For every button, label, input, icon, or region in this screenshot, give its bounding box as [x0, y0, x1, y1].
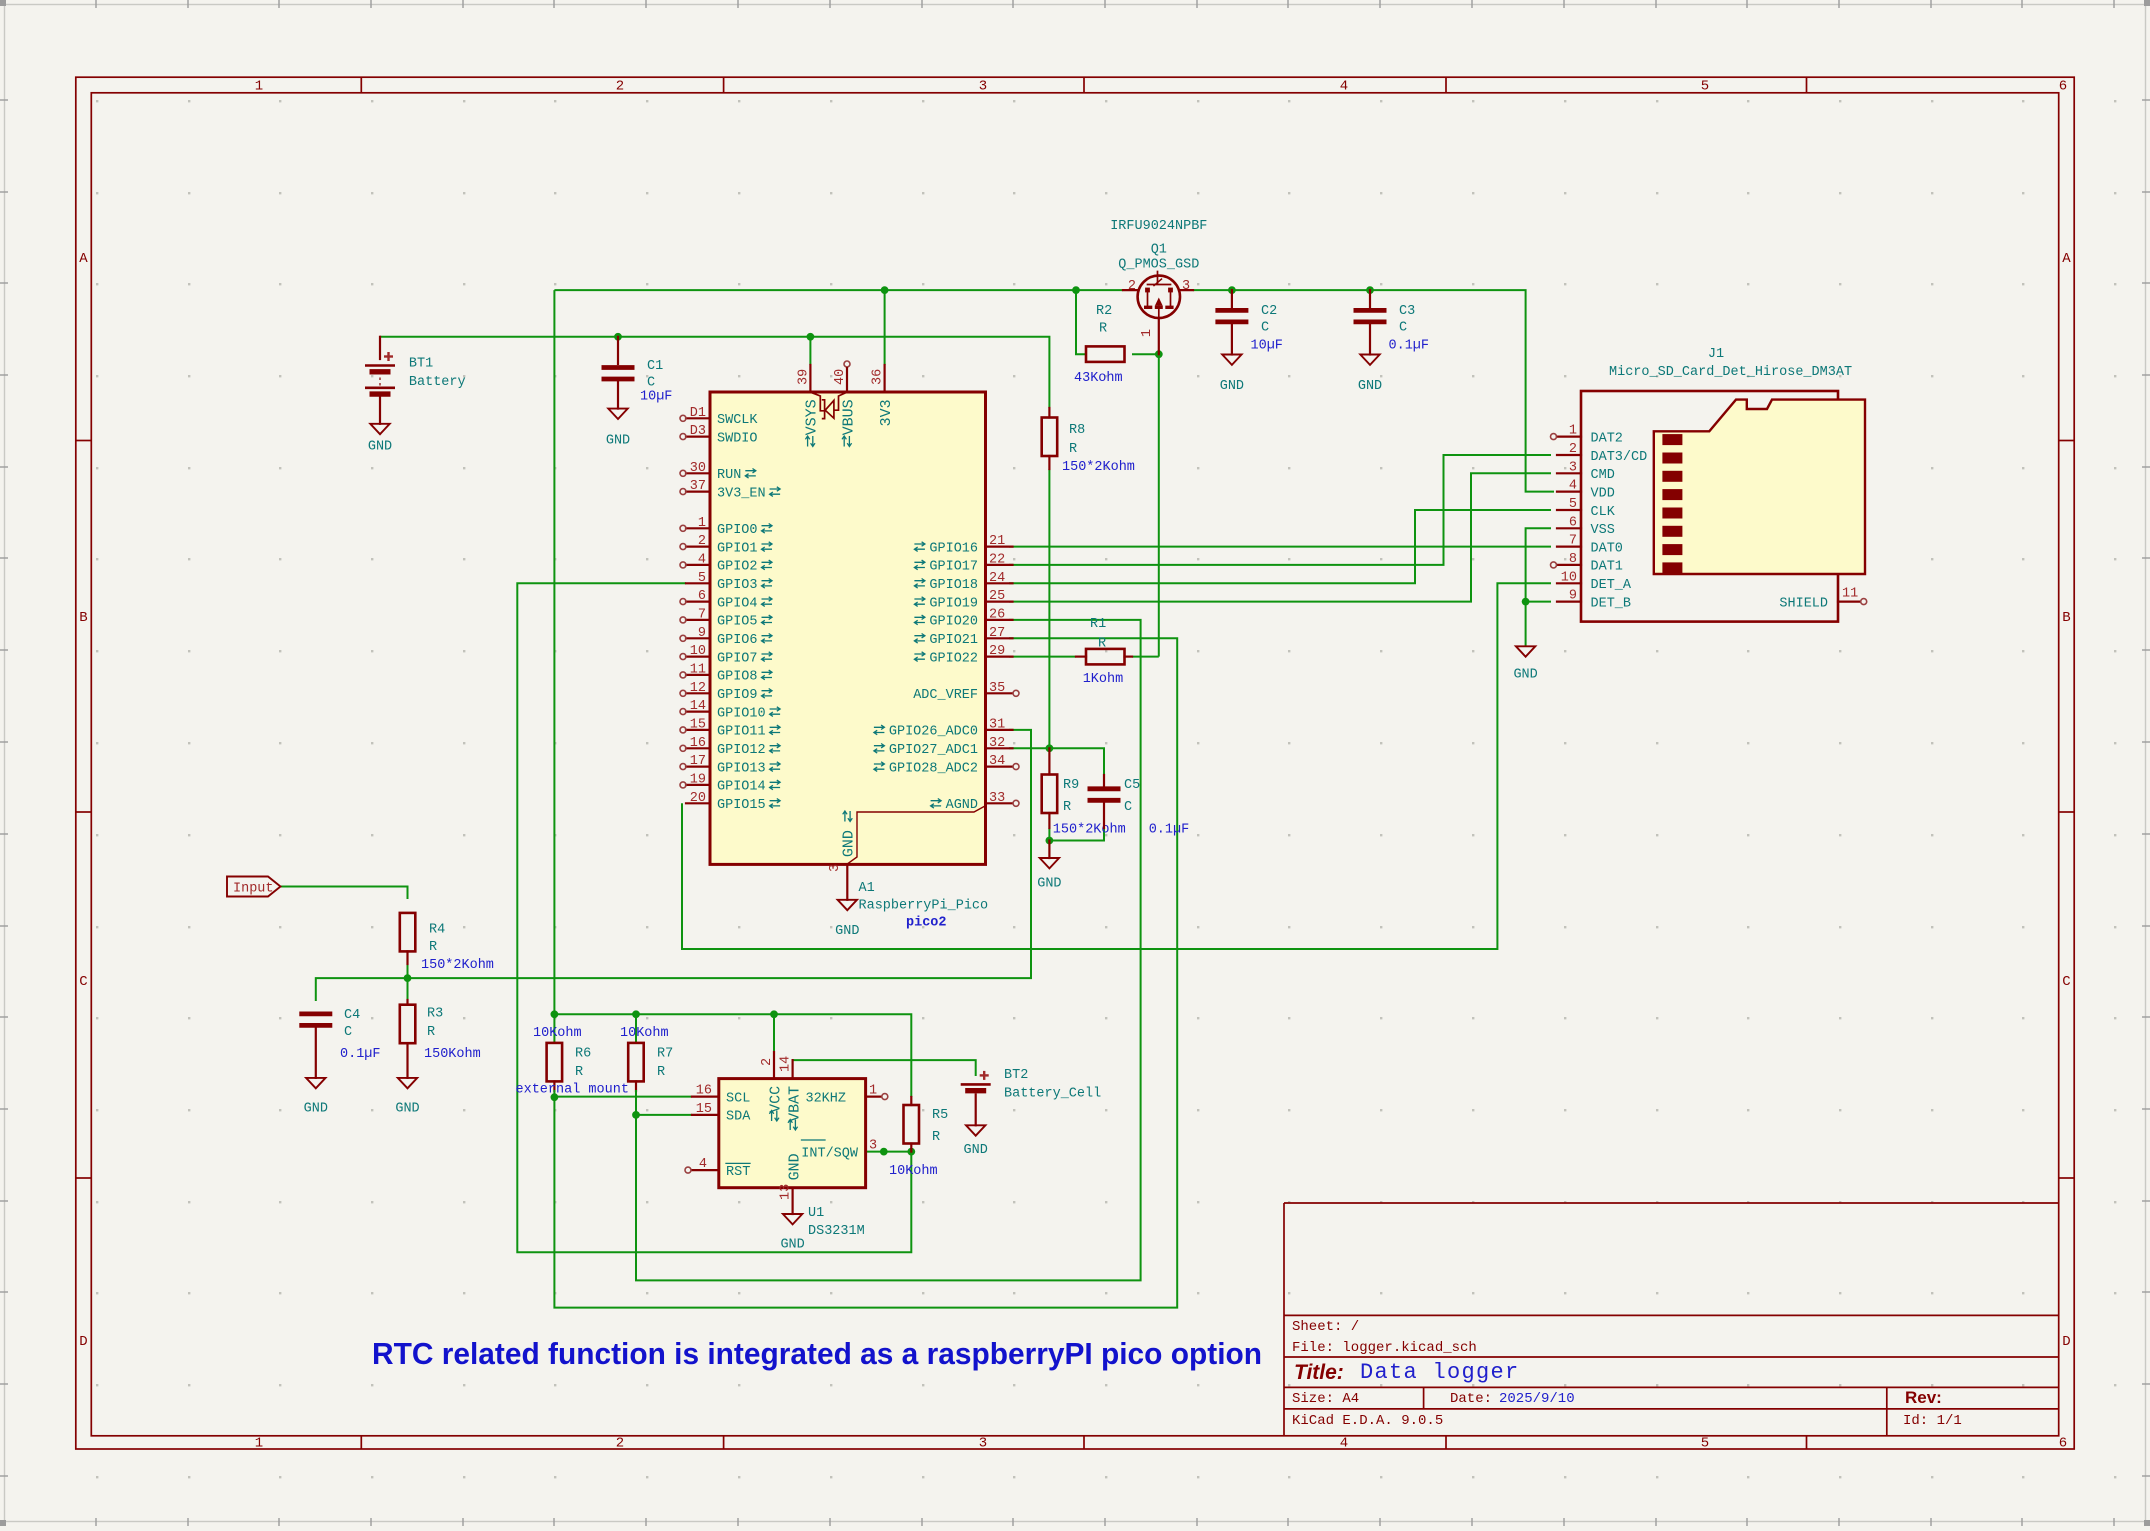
J1 micro sd card shape: [1654, 400, 1865, 574]
svg-text:A: A: [2062, 251, 2071, 267]
svg-text:GND: GND: [835, 924, 859, 939]
chip U1 DS3231M body: [719, 1079, 866, 1188]
svg-text:pico2: pico2: [906, 916, 947, 931]
svg-text:10: 10: [690, 644, 706, 659]
wire SCL pin to R6 junction: [554, 1096, 692, 1098]
svg-text:C: C: [1261, 321, 1269, 336]
svg-text:32KHZ: 32KHZ: [805, 1091, 846, 1106]
wire GPIO22 to R1: [1009, 656, 1076, 658]
ground DET_B: [1516, 646, 1535, 656]
chip A1 RaspberryPi_Pico body: [710, 392, 986, 864]
ground U1: [783, 1214, 802, 1224]
svg-text:11: 11: [690, 662, 706, 677]
svg-text:14: 14: [779, 1056, 794, 1072]
svg-text:A1: A1: [859, 881, 875, 896]
svg-text:19: 19: [690, 772, 706, 787]
svg-text:Battery_Cell: Battery_Cell: [1004, 1087, 1101, 1102]
svg-text:Q_PMOS_GSD: Q_PMOS_GSD: [1118, 258, 1199, 273]
svg-text:Sheet: /: Sheet: /: [1292, 1319, 1359, 1335]
pin 7 GPIO5: [686, 619, 710, 621]
svg-text:Size: A4: Size: A4: [1292, 1391, 1359, 1407]
pin 5 CLK: [1557, 509, 1581, 511]
svg-text:36: 36: [871, 369, 886, 385]
svg-text:DAT0: DAT0: [1591, 541, 1623, 556]
svg-text:DAT1: DAT1: [1591, 560, 1623, 575]
junction 3V3 rail / pin36: [881, 286, 889, 294]
wire R9/C5 bottom join: [1049, 828, 1104, 841]
capacitor C5: [1103, 775, 1105, 786]
svg-text:AGND: AGND: [946, 798, 978, 813]
pin 14 VBAT: [791, 1060, 793, 1079]
svg-text:B: B: [2062, 610, 2070, 626]
svg-text:21: 21: [989, 534, 1005, 549]
svg-text:20: 20: [690, 791, 706, 806]
connector J1 outer box: [1581, 391, 1838, 622]
svg-text:8: 8: [1569, 552, 1577, 567]
svg-text:C: C: [1124, 800, 1132, 815]
ground C1: [608, 409, 627, 419]
pin 6 GPIO4: [686, 600, 710, 602]
svg-text:GPIO21: GPIO21: [929, 633, 978, 648]
svg-text:2: 2: [1128, 279, 1136, 294]
pin 37 3V3_EN: [686, 491, 710, 493]
pin 3 CMD: [1557, 472, 1581, 474]
svg-text:R7: R7: [657, 1047, 673, 1062]
junction VCC rail / pin2: [770, 1010, 778, 1018]
svg-text:D: D: [79, 1334, 87, 1350]
capacitor C3: [1369, 290, 1371, 307]
pin 4 GPIO2: [686, 564, 710, 566]
svg-text:5: 5: [1701, 1436, 1709, 1452]
svg-text:9: 9: [698, 626, 706, 641]
junction gate / R2 / R1: [1155, 350, 1163, 358]
svg-text:SDA: SDA: [726, 1110, 751, 1125]
svg-text:15: 15: [690, 717, 706, 732]
svg-text:Title:: Title:: [1294, 1361, 1344, 1384]
ground C2: [1222, 355, 1241, 365]
wire VSS to DET_B junction: [1526, 528, 1551, 601]
svg-text:150*2Kohm: 150*2Kohm: [421, 958, 494, 973]
svg-text:1Kohm: 1Kohm: [1083, 672, 1124, 687]
svg-text:GPIO15: GPIO15: [717, 798, 766, 813]
svg-text:ADC_VREF: ADC_VREF: [913, 688, 978, 703]
svg-text:2: 2: [698, 534, 706, 549]
svg-text:3V3: 3V3: [878, 399, 895, 426]
svg-text:GND: GND: [1358, 379, 1382, 394]
svg-text:GPIO2: GPIO2: [717, 560, 758, 575]
junction R9 / C5 / GND: [1046, 837, 1054, 845]
svg-text:A: A: [79, 251, 88, 267]
pin 6 VSS: [1557, 527, 1581, 529]
wire RTC VCC rail: [554, 1014, 911, 1097]
svg-text:R9: R9: [1063, 778, 1079, 793]
svg-text:5: 5: [1569, 497, 1577, 512]
svg-text:RST: RST: [726, 1165, 750, 1180]
pin 15 GPIO11: [686, 729, 710, 731]
svg-text:R6: R6: [575, 1047, 591, 1062]
svg-text:IRFU9024NPBF: IRFU9024NPBF: [1110, 219, 1207, 234]
svg-text:R: R: [575, 1065, 583, 1080]
svg-text:16: 16: [690, 736, 706, 751]
ground C4: [306, 1078, 325, 1088]
junction 3V3 rail / C3: [1366, 286, 1374, 294]
svg-text:VSYS: VSYS: [804, 399, 821, 435]
pin 10 GPIO7: [686, 655, 710, 657]
svg-text:Micro_SD_Card_Det_Hirose_DM3AT: Micro_SD_Card_Det_Hirose_DM3AT: [1609, 365, 1852, 380]
svg-text:Data logger: Data logger: [1360, 1360, 1520, 1385]
pin 31 GPIO26_ADC0: [986, 729, 1013, 731]
pin 27 GPIO21: [986, 637, 1013, 639]
ground R3: [398, 1078, 417, 1088]
svg-text:GPIO11: GPIO11: [717, 725, 766, 740]
svg-text:35: 35: [989, 681, 1005, 696]
svg-text:VDD: VDD: [1591, 486, 1615, 501]
svg-text:external mount: external mount: [516, 1083, 629, 1098]
svg-text:GPIO3: GPIO3: [717, 578, 758, 593]
svg-text:12: 12: [690, 681, 706, 696]
svg-text:3: 3: [869, 1139, 877, 1154]
pico internal VSYS/VBUS diode: [811, 393, 846, 419]
svg-text:Id: 1/1: Id: 1/1: [1903, 1413, 1962, 1429]
svg-text:1: 1: [1569, 424, 1577, 439]
svg-text:30: 30: [690, 461, 706, 476]
capacitor C2: [1231, 290, 1233, 307]
svg-text:C: C: [1399, 321, 1407, 336]
junction VSYS rail / pin39: [807, 333, 815, 341]
svg-text:29: 29: [989, 644, 1005, 659]
wire GPIO3 to INT/SQW return: [517, 583, 911, 1252]
svg-text:SWDIO: SWDIO: [717, 431, 758, 446]
pin 30 RUN: [686, 472, 710, 474]
svg-text:GPIO18: GPIO18: [929, 578, 978, 593]
pin 14 GPIO10: [686, 710, 710, 712]
junction SDA / R7: [632, 1111, 640, 1119]
svg-text:D3: D3: [690, 424, 706, 439]
svg-text:R: R: [932, 1130, 940, 1145]
svg-text:R: R: [1099, 321, 1107, 336]
wire VSYS rail from BT1 to R8: [380, 337, 1049, 408]
svg-text:C: C: [79, 974, 87, 990]
wire gate vertical to R1: [1158, 354, 1160, 656]
junction DET_B / VSS / GND: [1522, 598, 1530, 606]
svg-text:2025/9/10: 2025/9/10: [1499, 1391, 1575, 1407]
svg-text:GPIO1: GPIO1: [717, 541, 758, 556]
svg-text:INT/SQW: INT/SQW: [801, 1146, 859, 1161]
svg-text:33: 33: [989, 791, 1005, 806]
svg-text:7: 7: [1569, 534, 1577, 549]
svg-text:VCC: VCC: [768, 1086, 785, 1113]
svg-text:CMD: CMD: [1591, 468, 1615, 483]
svg-text:BT2: BT2: [1004, 1068, 1028, 1083]
pin 39 VSYS: [809, 365, 811, 392]
svg-text:DS3231M: DS3231M: [808, 1224, 865, 1239]
junction VSYS rail / C1: [614, 333, 622, 341]
svg-text:0.1µF: 0.1µF: [340, 1047, 381, 1062]
svg-text:150Kohm: 150Kohm: [424, 1047, 481, 1062]
pin 1 DAT2: [1557, 436, 1581, 438]
svg-text:9: 9: [1569, 589, 1577, 604]
junction SCL / R6: [551, 1093, 559, 1101]
svg-text:RTC related function is integr: RTC related function is integrated as a …: [372, 1336, 1262, 1371]
svg-text:U1: U1: [808, 1206, 824, 1221]
ground pico: [838, 900, 857, 910]
wire R2 to gate junction: [1132, 353, 1159, 355]
svg-text:KiCad E.D.A. 9.0.5: KiCad E.D.A. 9.0.5: [1292, 1413, 1443, 1429]
pin D1 SWCLK: [686, 417, 710, 419]
wire GPIO16 to DAT0: [1009, 546, 1551, 548]
svg-text:GND: GND: [1220, 379, 1244, 394]
svg-text:GND: GND: [304, 1102, 328, 1117]
svg-text:R: R: [657, 1065, 665, 1080]
junction INT/SQW / R5: [907, 1148, 915, 1156]
svg-text:24: 24: [989, 571, 1005, 586]
svg-text:10Kohm: 10Kohm: [533, 1026, 582, 1041]
pin 9 DET_B: [1557, 600, 1581, 602]
svg-text:43Kohm: 43Kohm: [1074, 371, 1123, 386]
svg-text:DET_A: DET_A: [1591, 578, 1632, 593]
wire 3V3 top rail: [554, 289, 1123, 291]
svg-text:D1: D1: [690, 406, 706, 421]
pin 32 GPIO27_ADC1: [986, 747, 1013, 749]
svg-text:GND: GND: [786, 1153, 803, 1180]
svg-text:GPIO13: GPIO13: [717, 761, 766, 776]
svg-text:25: 25: [989, 589, 1005, 604]
svg-text:1: 1: [698, 516, 706, 531]
svg-text:R1: R1: [1090, 617, 1106, 632]
resistor R3: [406, 1000, 408, 1005]
pin 16 GPIO12: [686, 747, 710, 749]
svg-text:C: C: [2062, 974, 2070, 990]
pin 1 GPIO0: [686, 527, 710, 529]
svg-text:4: 4: [699, 1157, 707, 1172]
junction INT/SQW a: [880, 1148, 888, 1156]
svg-text:GND: GND: [1513, 668, 1537, 683]
svg-text:34: 34: [989, 754, 1005, 769]
wire DET_B junction to GND: [1525, 602, 1527, 647]
resistor R4: [400, 913, 416, 952]
pin 20 GPIO15: [686, 802, 710, 804]
pin 8 DAT1: [1557, 564, 1581, 566]
pin 12 GPIO9: [686, 692, 710, 694]
battery BT1: [379, 337, 381, 359]
svg-text:5: 5: [698, 571, 706, 586]
ground BT2: [966, 1125, 985, 1135]
resistor R5: [910, 1097, 912, 1105]
svg-text:6: 6: [2059, 79, 2067, 95]
svg-text:3: 3: [828, 864, 843, 872]
wire 3V3 to RTC VCC rail (left vertical): [553, 290, 555, 1014]
svg-text:VBAT: VBAT: [786, 1086, 803, 1122]
svg-text:DAT2: DAT2: [1591, 431, 1623, 446]
svg-text:R: R: [1063, 800, 1071, 815]
svg-text:R8: R8: [1069, 423, 1085, 438]
pico internal GND pin outline: [847, 806, 985, 864]
svg-text:14: 14: [690, 699, 706, 714]
svg-text:Q1: Q1: [1151, 243, 1167, 258]
svg-text:150*2Kohm: 150*2Kohm: [1062, 460, 1135, 475]
svg-text:10Kohm: 10Kohm: [889, 1164, 938, 1179]
svg-text:37: 37: [690, 479, 706, 494]
svg-text:GPIO4: GPIO4: [717, 596, 758, 611]
svg-text:VBUS: VBUS: [840, 399, 857, 435]
svg-text:GPIO16: GPIO16: [929, 541, 978, 556]
svg-text:GPIO10: GPIO10: [717, 706, 766, 721]
svg-text:22: 22: [989, 552, 1005, 567]
svg-text:D: D: [2062, 1334, 2070, 1350]
svg-text:GPIO20: GPIO20: [929, 615, 978, 630]
junction 3V3 rail / C2: [1228, 286, 1236, 294]
svg-text:15: 15: [696, 1102, 712, 1117]
svg-text:GPIO22: GPIO22: [929, 651, 978, 666]
wire VBAT to BT2: [793, 1060, 976, 1076]
pin 9 GPIO6: [686, 637, 710, 639]
svg-text:Rev:: Rev:: [1905, 1388, 1942, 1407]
svg-text:2: 2: [616, 79, 624, 95]
wire R2 gate branch: [1076, 290, 1086, 354]
wire INT/SQW to R5: [866, 1151, 912, 1153]
junction R4 / R3 / ADC line: [404, 974, 412, 982]
wire R4 bottom to node: [407, 964, 409, 1000]
wire GPIO18 to CLK: [1009, 510, 1551, 583]
svg-text:GND: GND: [395, 1102, 419, 1117]
svg-text:GPIO9: GPIO9: [717, 688, 758, 703]
svg-text:GND: GND: [841, 830, 858, 857]
wire GPIO27_ADC1 to R9/C5: [1009, 748, 1104, 775]
svg-text:Input: Input: [233, 881, 274, 896]
svg-text:10µF: 10µF: [1251, 339, 1283, 354]
svg-text:C3: C3: [1399, 304, 1415, 319]
wire GPIO17 to DAT3/CD: [1009, 455, 1551, 565]
svg-text:GPIO17: GPIO17: [929, 560, 978, 575]
wire VCC pin 2 drop: [773, 1014, 775, 1052]
pin 35 ADC_VREF: [986, 692, 1013, 694]
svg-text:B: B: [79, 610, 87, 626]
svg-text:150*2Kohm: 150*2Kohm: [1053, 823, 1126, 838]
svg-text:1: 1: [869, 1084, 877, 1099]
svg-text:4: 4: [698, 552, 706, 567]
svg-text:Date:: Date:: [1450, 1391, 1492, 1407]
ground R9/C5: [1048, 841, 1050, 859]
svg-text:27: 27: [989, 626, 1005, 641]
pin 11 GPIO8: [686, 674, 710, 676]
wire GPIO20 to SDA return: [636, 620, 1141, 1281]
pin 3 GND bottom: [846, 864, 848, 899]
svg-text:4: 4: [1340, 1436, 1348, 1452]
wire R1 right lead to gate vertical: [1132, 656, 1159, 658]
resistor R1: [1076, 655, 1086, 657]
svg-text:GPIO7: GPIO7: [717, 651, 758, 666]
ground C3: [1360, 355, 1379, 365]
svg-text:11: 11: [1842, 587, 1858, 602]
svg-text:1: 1: [1140, 329, 1155, 337]
svg-text:GPIO26_ADC0: GPIO26_ADC0: [889, 725, 978, 740]
svg-text:GPIO8: GPIO8: [717, 670, 758, 685]
svg-text:6: 6: [698, 589, 706, 604]
pin 34 GPIO28_ADC2: [986, 765, 1013, 767]
svg-text:40: 40: [833, 369, 848, 385]
svg-text:2: 2: [616, 1436, 624, 1452]
svg-text:R4: R4: [429, 923, 445, 938]
svg-text:GPIO0: GPIO0: [717, 523, 758, 538]
pin 2 GPIO1: [686, 545, 710, 547]
pin 25 GPIO19: [986, 600, 1013, 602]
svg-text:0.1µF: 0.1µF: [1389, 339, 1430, 354]
capacitor C4: [299, 1012, 332, 1017]
svg-text:RUN: RUN: [717, 468, 741, 483]
svg-text:GPIO14: GPIO14: [717, 780, 766, 795]
svg-text:6: 6: [2059, 1436, 2067, 1452]
svg-text:R: R: [1098, 637, 1106, 652]
wire GPIO19 to CMD: [1009, 473, 1551, 601]
svg-text:R: R: [427, 1025, 435, 1040]
svg-text:CLK: CLK: [1591, 505, 1616, 520]
junction GPIO27 / R8 / R9: [1046, 744, 1054, 752]
svg-text:6: 6: [1569, 515, 1577, 530]
capacitor C1: [617, 337, 619, 364]
pin 26 GPIO20: [986, 619, 1013, 621]
pin 40 VBUS: [844, 361, 850, 367]
svg-text:10µF: 10µF: [640, 390, 672, 405]
pin 24 GPIO18: [986, 582, 1013, 584]
svg-text:3: 3: [1569, 460, 1577, 475]
wire Input to R4: [281, 887, 408, 900]
pin 10 DET_A: [1557, 582, 1581, 584]
wire VSYS pin drop: [809, 337, 811, 365]
svg-text:SWCLK: SWCLK: [717, 413, 758, 428]
svg-text:GPIO28_ADC2: GPIO28_ADC2: [889, 761, 978, 776]
svg-text:Battery: Battery: [409, 375, 466, 390]
svg-text:C2: C2: [1261, 304, 1277, 319]
wire GPIO21 to SCL return: [554, 638, 1177, 1307]
svg-text:13: 13: [779, 1184, 794, 1200]
pin 33 AGND: [986, 802, 1013, 804]
svg-text:VSS: VSS: [1591, 523, 1615, 538]
svg-text:BT1: BT1: [409, 357, 433, 372]
junction 3V3 rail / R2: [1072, 286, 1080, 294]
svg-text:GND: GND: [780, 1238, 804, 1253]
svg-text:GPIO6: GPIO6: [717, 633, 758, 648]
svg-text:C: C: [344, 1025, 352, 1040]
svg-text:31: 31: [989, 717, 1005, 732]
pin 22 GPIO17: [986, 564, 1013, 566]
pin 11 SHIELD: [1838, 600, 1860, 602]
svg-text:DET_B: DET_B: [1591, 596, 1632, 611]
pin 19 GPIO14: [686, 784, 710, 786]
svg-text:2: 2: [760, 1058, 775, 1066]
svg-text:GND: GND: [606, 434, 630, 449]
svg-text:26: 26: [989, 607, 1005, 622]
svg-text:GPIO19: GPIO19: [929, 596, 978, 611]
input label flag: [227, 877, 281, 897]
svg-text:3: 3: [1182, 279, 1190, 294]
pin 7 DAT0: [1557, 545, 1581, 547]
wire GPIO26_ADC0 to divider: [316, 730, 1031, 1001]
svg-text:3V3_EN: 3V3_EN: [717, 486, 766, 501]
wire R8 bottom to GPIO27 node: [1048, 469, 1050, 748]
svg-text:C4: C4: [344, 1008, 360, 1023]
pin 17 GPIO13: [686, 765, 710, 767]
junction VCC rail / R7: [632, 1010, 640, 1018]
svg-text:39: 39: [796, 369, 811, 385]
svg-text:J1: J1: [1708, 347, 1724, 362]
pin 5 GPIO3: [686, 582, 710, 584]
svg-text:32: 32: [989, 736, 1005, 751]
pin 15 SDA: [692, 1114, 719, 1116]
svg-text:GND: GND: [964, 1143, 988, 1158]
svg-text:7: 7: [698, 607, 706, 622]
svg-text:17: 17: [690, 754, 706, 769]
svg-text:2: 2: [1569, 442, 1577, 457]
